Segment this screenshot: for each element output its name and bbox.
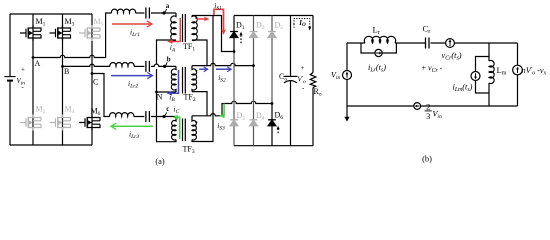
TF2 polarity dot [195,70,197,72]
wire: bottom rail [347,105,518,107]
diode D4 (inactive) [250,120,258,126]
D1 current dashed arrow [240,35,242,44]
source nVo-vx [513,65,523,75]
capacitor Co [284,75,298,77]
diode D2 (inactive) [230,120,238,126]
TF2 core [183,67,186,94]
wire: Lm branch [488,43,490,106]
wire: leg 3 [91,14,93,145]
diode D1 [230,32,238,38]
svg-text:N: N [157,93,163,102]
svg-text:C: C [93,78,98,87]
wire [134,65,144,67]
node a [162,11,165,14]
wire: phase A to branch 1 [33,13,112,58]
svg-text:2: 2 [426,102,430,111]
svg-text:+: + [21,66,25,74]
capacitor Cr [426,38,430,49]
wire: TF3 secondary return bus [192,16,213,142]
iLr1 arrow [112,23,151,25]
wire: phase B to branch 2 [63,64,111,66]
wire: rectifier bottom rail [234,145,313,147]
svg-text:c: c [166,105,169,113]
svg-text:b: b [167,56,171,64]
wire: star bus below b (to N) [157,69,177,142]
wire: TF1 secondary top to rectifier leg 1 [192,16,234,52]
ground arrow [346,106,348,118]
wire: bottom rail [10,144,92,146]
iLr2 arrow [111,75,152,77]
node c [162,115,165,118]
transistor M4 (inactive) [50,115,71,131]
wire: leg 1 [32,14,34,145]
wire: top rail [347,42,518,44]
wire to node c [151,116,176,118]
svg-text:3: 3 [426,112,430,121]
wire: TF1 primary return to star bus [157,40,177,64]
probe vCr [446,39,455,48]
source Vin [343,71,352,80]
TF1 polarity dot [195,17,197,19]
wire to node b (hop over star bus) [151,64,176,66]
wire: TF3 secondary top to rectifier leg 3 (hops) [192,101,272,116]
node A [32,56,35,59]
svg-text:B: B [64,67,69,76]
inductor Lr [364,36,395,43]
node b [163,65,166,68]
transistor M3 [50,25,71,41]
iA arrow [170,18,180,42]
node: leg1 / TF1 junction [233,50,236,53]
transistor M1 [20,25,41,41]
iS1 arrow part1 [197,18,207,20]
transistor M2 (inactive) [20,115,41,131]
inductor Lr2 [110,63,134,67]
node: leg2 / TF2 junction [252,64,255,67]
transistor M5 (inactive) [79,25,100,41]
capacitor Cr2 [146,61,150,72]
TF3 primary winding [172,117,176,140]
source iLm [471,72,480,81]
source 2/3 Vin [414,103,421,110]
Io dashed probe box [294,19,310,29]
wire: rectifier leg 3 [271,16,273,104]
wire: top rail [10,13,92,15]
wire: TF2 secondary top to rectifier leg 2 (hops) [192,63,254,65]
battery Vin source [4,76,15,78]
inductor Lr3 [110,113,134,117]
D6 current dashed arrow [277,129,279,134]
wire: TF1 secondary return [192,40,207,66]
TF1 secondary winding [192,16,197,41]
svg-text:A: A [35,59,41,68]
inductor Lm [489,60,494,83]
TF3 secondary winding [192,116,196,140]
wire: left rail [9,14,11,145]
wire: rectifier top rail [234,15,313,17]
wire: TF2 primary return to node N [157,91,177,93]
iS2 arrow part1 [199,68,207,70]
iC arrow [176,117,180,139]
svg-text:nV′o -vx: nV′o -vx [522,66,547,77]
diode D3 (inactive) [250,32,258,38]
wire: Co branch [290,16,292,146]
wire: iLr loop [361,43,396,53]
capacitor Cr1 [146,8,150,19]
wire: rectifier leg 1 [233,16,235,54]
iB arrow [170,70,179,93]
svg-text:+: + [301,64,305,72]
wire: iLm loop [476,57,490,94]
resistor Ro [310,73,316,88]
TF3 core [183,119,186,142]
iS3 arrow [222,104,224,116]
TF2 secondary winding [192,66,197,92]
TF2 primary winding [171,66,176,92]
wire [136,12,145,14]
wire: right branch [517,43,519,106]
inductor Lr1 [111,9,135,13]
diode D6 [268,120,276,126]
TF1 primary winding [171,13,176,41]
transistor M6 [79,115,100,131]
wire: rectifier leg 2 [253,16,255,146]
wire: Ro branch [312,16,314,146]
wire: TF2 secondary return [192,92,207,116]
iLr3 arrow [112,125,153,127]
svg-text:vCr(ts): vCr(ts) [441,51,461,62]
svg-text:a: a [166,2,170,10]
TF1 core [183,14,186,42]
svg-text:(b): (b) [422,155,432,164]
node C [91,72,94,75]
source iLr [375,49,382,56]
capacitor Cr3 [146,111,150,122]
wire: leg 2 [62,14,64,145]
iS2 arrow part2 [216,68,230,70]
wire: phase C to branch 3 [92,74,110,117]
node N [155,91,158,94]
svg-text:(a): (a) [155,157,165,166]
wire [134,116,145,118]
diode D5 (inactive) [268,32,276,38]
node B [61,65,64,68]
TF3 polarity dot [195,121,197,123]
node: leg3 / TF3 junction [271,102,274,105]
wire: left branch [346,43,348,106]
iS1 arrow part2 [214,9,224,31]
wire to node a [151,12,176,14]
